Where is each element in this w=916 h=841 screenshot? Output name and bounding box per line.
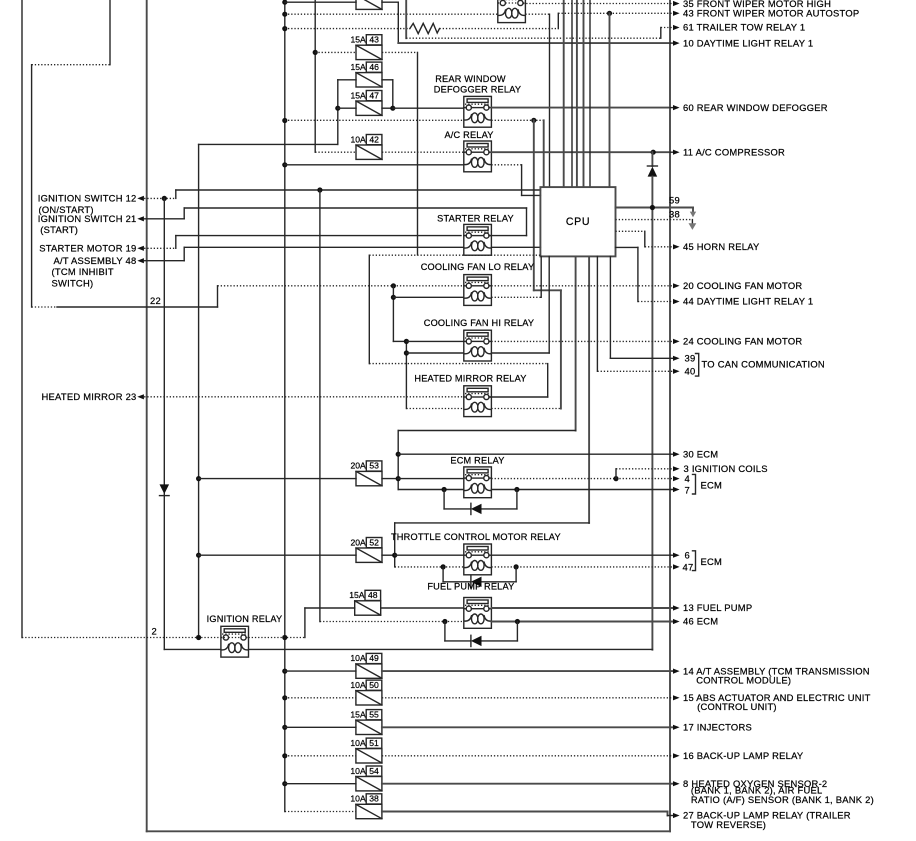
junction throttle diode right xyxy=(514,564,519,569)
wire CPU pin to ECM feed x=575.6 xyxy=(575,256,577,430)
svg-text:10A: 10A xyxy=(350,738,366,748)
svg-text:DEFOGGER RELAY: DEFOGGER RELAY xyxy=(434,85,521,95)
svg-text:REAR WINDOW: REAR WINDOW xyxy=(435,74,506,84)
wire fuse 54 input xyxy=(285,783,356,785)
wire diode branch vertical x=652.4 xyxy=(651,177,653,650)
wire battery feed A vertical x=22 xyxy=(21,0,23,638)
svg-text:20 COOLING FAN MOTOR: 20 COOLING FAN MOTOR xyxy=(683,280,802,291)
relay rear window defogger xyxy=(464,96,492,127)
fuse 10A 49 xyxy=(356,664,382,678)
wire riser x=398.3 for daytime relay feed xyxy=(397,2,399,43)
wire fuse 55 input xyxy=(285,726,356,728)
wire fuse 47 output y=108.2 xyxy=(382,107,393,109)
svg-text:COOLING FAN LO RELAY: COOLING FAN LO RELAY xyxy=(421,262,535,272)
junction fuses 46 47 common xyxy=(390,106,395,111)
wire riser x=558.3 resistor to autostop line xyxy=(557,13,559,28)
wire node 22 dashed distribution y=285.8 xyxy=(218,285,464,287)
wire 40 dashed y=371.3 xyxy=(597,370,673,372)
wire hi coil left y=353 xyxy=(406,352,463,354)
junction 11 line diode branch xyxy=(651,150,656,155)
junction fuse 52 node xyxy=(392,553,397,558)
diode D ECM relay xyxy=(444,508,471,510)
wire node 22 horizontal y=307 xyxy=(57,306,218,308)
wire 39 y=358.3 xyxy=(610,357,673,359)
junction bus285 on 2 line xyxy=(282,635,287,640)
wire throttle diode stub right xyxy=(515,567,517,582)
junction 59-ignition relay coil branch xyxy=(650,205,655,210)
wire defogger coil right dashed y=120.3 xyxy=(491,119,543,121)
wire fuse 46 input y=79.8 xyxy=(338,79,356,81)
fuse 10A 50 xyxy=(356,691,382,705)
wire bus285 corner to fuse 38 dashed y=811.5 xyxy=(285,811,356,813)
svg-text:54: 54 xyxy=(369,766,379,776)
ground symbol 38 xyxy=(689,223,697,230)
svg-text:3 IGNITION COILS: 3 IGNITION COILS xyxy=(684,463,768,474)
resistor R wiper autostop xyxy=(410,23,440,33)
wire heated mirror contact path vertical x=369.3 xyxy=(368,255,370,363)
svg-text:42: 42 xyxy=(369,134,379,144)
wire ign12 step riser x=175.8 xyxy=(175,190,177,198)
svg-text:44 DAYTIME LIGHT RELAY 1: 44 DAYTIME LIGHT RELAY 1 xyxy=(683,296,813,307)
wire ign21 to starter contact right y=235.6 xyxy=(490,235,527,237)
wire fuse 48 feed riser x=304.9 xyxy=(304,608,306,638)
svg-text:STARTER MOTOR 19: STARTER MOTOR 19 xyxy=(39,243,136,254)
junction autostop-CPU branch xyxy=(607,11,612,16)
wire defogger coil left dashed y=120.3 xyxy=(285,119,464,121)
arrow A/T ASSEMBLY 48 xyxy=(137,258,144,263)
wire ECM coil right 7 line y=489.5 xyxy=(491,489,673,491)
wire 38 ground drop x=692.4 xyxy=(691,220,693,224)
wire starter19 line y=236.2 wait use 235.6 xyxy=(176,235,461,237)
relay throttle control motor xyxy=(464,544,492,575)
wire heated mirror coil right dashed y=408.5 xyxy=(491,408,561,410)
wire fuse 54 output to arrow xyxy=(382,783,673,785)
wire 10 DAYTIME LIGHT RELAY 1 line y=43.1 xyxy=(398,42,670,44)
wire fuse 49 input xyxy=(285,670,356,672)
junction bus285 fuse 55 tap xyxy=(282,725,287,730)
relay cooling fan lo xyxy=(464,275,492,306)
svg-text:IGNITION SWITCH 21: IGNITION SWITCH 21 xyxy=(38,213,137,224)
wire cooling hi coil right y=353 xyxy=(491,352,549,354)
svg-text:17 INJECTORS: 17 INJECTORS xyxy=(683,722,752,733)
wire ign21 drop x=526.5 xyxy=(526,208,528,236)
junction ECM diode left xyxy=(442,487,447,492)
wire AC coil right dashed y=164.8 xyxy=(491,164,521,166)
wire fuse 48 input y=608 xyxy=(305,607,355,609)
svg-text:FUEL PUMP RELAY: FUEL PUMP RELAY xyxy=(427,581,514,591)
fuse 15A 55 xyxy=(356,720,382,734)
svg-text:20A: 20A xyxy=(351,461,367,471)
svg-text:15A: 15A xyxy=(349,590,365,600)
bus vertical x=285 xyxy=(284,0,286,812)
svg-text:60 REAR WINDOW DEFOGGER: 60 REAR WINDOW DEFOGGER xyxy=(683,102,828,113)
wire fuse 43 feed riser x=315.2 xyxy=(314,0,316,152)
wire lo coil left y=297.3 xyxy=(393,296,463,298)
wire fuse 53 input y=478.6 xyxy=(199,478,356,480)
wire fuse 43 input dashed y=52.4 xyxy=(315,51,356,53)
wire 4 ECM dashed y=478.6 xyxy=(491,478,673,480)
svg-text:TO CAN COMMUNICATION: TO CAN COMMUNICATION xyxy=(702,359,825,370)
junction node2-fuse52 tap xyxy=(196,553,201,558)
fuse 10A 38 xyxy=(356,804,382,818)
junction node2 tap on 2 line xyxy=(196,635,201,640)
diode D throttle relay xyxy=(443,581,471,583)
wire wiper coil riser x=549.5 to CPU xyxy=(549,14,551,187)
svg-text:11 A/C COMPRESSOR: 11 A/C COMPRESSOR xyxy=(683,146,785,157)
relay cooling fan hi xyxy=(464,330,492,361)
svg-text:47: 47 xyxy=(369,90,379,100)
wire fuse 46 output drop x=392.8 xyxy=(392,80,394,108)
wire heated mirror contact path dashed y=363.6 xyxy=(369,363,547,365)
wire ign12 branch vertical x=164.3 xyxy=(163,198,165,649)
wire fuse 50 output to arrow xyxy=(382,697,673,699)
wire ECM coil left y=489.5 xyxy=(398,489,464,491)
wire throttle diode stub left xyxy=(442,567,444,582)
svg-text:(TCM INHIBIT: (TCM INHIBIT xyxy=(52,266,114,277)
junction throttle diode left xyxy=(441,564,446,569)
svg-text:15A: 15A xyxy=(350,709,366,719)
wire 61 step up at x=660.8 xyxy=(660,28,662,39)
junction bus285 fuse 54 tap xyxy=(282,781,287,786)
junction 22 bus lo contact xyxy=(391,283,396,288)
svg-text:HEATED MIRROR 23: HEATED MIRROR 23 xyxy=(42,391,137,402)
wire heated mirror contact path vertical x=547.7 xyxy=(547,364,549,397)
wire 60 REAR WINDOW DEFOGGER y=107.6 xyxy=(491,107,670,109)
wire ignition coil left y=649.7 xyxy=(164,648,221,650)
outer enclosure border bottom edge xyxy=(147,830,670,832)
svg-text:10A: 10A xyxy=(350,680,366,690)
relay ECM xyxy=(464,467,492,498)
wire 45 drop x=644.8 xyxy=(644,231,646,247)
svg-text:22: 22 xyxy=(150,295,161,306)
wire autostop branch riser x=609.5 to CPU xyxy=(609,13,611,187)
wire ign21 line y=208 xyxy=(184,207,526,209)
svg-text:TOW REVERSE): TOW REVERSE) xyxy=(691,819,766,830)
wire lo coil right dashed y=297.3 xyxy=(491,296,541,298)
wire node 22 riser x=217.5 xyxy=(217,286,219,307)
wire ign12 line y=190 to CPU xyxy=(176,189,541,191)
fuse 20A 52 xyxy=(356,548,382,562)
junction bus-fuse40 feed xyxy=(282,0,287,5)
svg-text:COOLING FAN HI RELAY: COOLING FAN HI RELAY xyxy=(424,318,535,328)
wire fuse 40 feed y=2.2 xyxy=(285,1,356,3)
wire feed B vertical x=31.6 xyxy=(31,65,33,307)
wire 59 output y=207.5 xyxy=(616,207,694,209)
svg-text:SWITCH): SWITCH) xyxy=(52,277,94,288)
wire ignition coil right y=649.7 xyxy=(249,648,653,650)
svg-text:55: 55 xyxy=(369,709,379,719)
wire heated mirror contact right y=397 xyxy=(490,396,548,398)
wire fuse 49 output to arrow xyxy=(382,670,673,672)
wire 38 output dashed y=219.6 xyxy=(616,219,693,221)
junction defogger coil branch xyxy=(531,118,536,123)
wire CPU pin to throttle feed x=589.1 xyxy=(588,256,590,523)
wire 59 ground drop x=693 xyxy=(692,208,694,213)
junction bus285 fuse 51 tap xyxy=(282,753,287,758)
junction bus285 fuse 50 tap xyxy=(282,695,287,700)
bracket ECM 4-7 xyxy=(693,474,696,494)
junction fuel diode right xyxy=(515,619,520,624)
svg-text:15A: 15A xyxy=(351,90,367,100)
svg-text:15A: 15A xyxy=(351,35,367,45)
junction fuse 53 node xyxy=(396,476,401,481)
relay starter xyxy=(464,224,492,255)
svg-text:RATIO (A/F) SENSOR (BANK 1, BA: RATIO (A/F) SENSOR (BANK 1, BANK 2) xyxy=(691,794,874,805)
wire CPU top bus line x=563.7 xyxy=(563,0,565,187)
wire heated mirror 23 dashed y=396.8 xyxy=(144,396,464,398)
wire starter motor 19 dashed y=248.3 xyxy=(144,247,176,249)
svg-text:10A: 10A xyxy=(350,794,366,804)
svg-text:61 TRAILER TOW RELAY 1: 61 TRAILER TOW RELAY 1 xyxy=(683,22,805,33)
svg-text:THROTTLE CONTROL MOTOR RELAY: THROTTLE CONTROL MOTOR RELAY xyxy=(391,532,561,542)
svg-text:STARTER RELAY: STARTER RELAY xyxy=(437,214,514,224)
junction bus-resistor line xyxy=(282,26,287,31)
wire fuel diode stub left xyxy=(444,622,446,641)
wire fuse 38 output y=811.5 xyxy=(382,811,668,813)
wire fuse 52 output y=555.2 xyxy=(382,554,395,556)
wire 20 COOLING FAN MOTOR dashed y=285.8 xyxy=(491,285,673,287)
wire fuse 55 output to arrow xyxy=(382,726,673,728)
wire CPU top bus line x=583.5 xyxy=(583,0,585,187)
junction 22 bus lo coil xyxy=(391,295,396,300)
wire fuse 52 input y=555.2 xyxy=(199,554,356,556)
wire fuse 42 input dashed y=152 xyxy=(315,151,356,153)
svg-text:(START): (START) xyxy=(40,224,78,235)
wire ECM diode stub left xyxy=(443,490,445,509)
svg-text:50: 50 xyxy=(369,680,379,690)
wire fuse 53 output y=478.6 xyxy=(382,478,398,480)
fuse 40 (cropped at top) xyxy=(356,0,382,9)
svg-text:30 ECM: 30 ECM xyxy=(683,448,718,459)
svg-text:IGNITION RELAY: IGNITION RELAY xyxy=(207,614,283,624)
junction fuel diode left xyxy=(442,619,447,624)
wire defogger contact feed y=108.2 xyxy=(393,107,464,109)
junction 22 bus hi contact xyxy=(404,339,409,344)
wire trailer tow feed vertical x=406.2 xyxy=(405,0,407,38)
wire fuel coil left feed riser x=319.9 xyxy=(319,190,321,622)
wire node 2 riser x=198.6 xyxy=(198,144,200,637)
svg-text:39: 39 xyxy=(685,353,696,364)
svg-text:53: 53 xyxy=(369,461,379,471)
wire 22 bus vertical x=393.4 xyxy=(392,286,394,342)
wire defogger branch jog y=290.3 xyxy=(534,289,561,291)
wire fuse 51 input xyxy=(285,755,356,757)
wire throttle coil right 47 dashed y=566.9 xyxy=(491,566,673,568)
svg-text:49: 49 xyxy=(369,653,379,663)
junction bus-wiper coil xyxy=(282,12,287,17)
wire 44 output y=247.4 xyxy=(616,246,638,248)
junction 3 ignition coils branch xyxy=(613,476,618,481)
wire 24 COOLING FAN MOTOR dashed y=341.4 xyxy=(491,340,673,342)
svg-text:47: 47 xyxy=(683,561,694,572)
svg-text:13 FUEL PUMP: 13 FUEL PUMP xyxy=(683,602,752,613)
wire ignition switch 21 y=218.8 xyxy=(144,218,184,220)
svg-text:40: 40 xyxy=(685,366,696,377)
wire 61 arrow segment y=27.5 xyxy=(661,27,673,29)
wire fuse 40 output to corner xyxy=(382,1,398,3)
wire fuel coil right 46 y=622.5 xyxy=(491,621,673,623)
wire wiper coil left dashed y=14.2 xyxy=(285,13,498,15)
svg-text:20A: 20A xyxy=(351,537,367,547)
wire fuse 43 output dashed xyxy=(382,51,418,53)
relay ignition xyxy=(221,626,249,657)
wire AT48 line y=247.3 to starter coil xyxy=(184,246,464,248)
wire 3 IGNITION COILS dashed y=468.8 xyxy=(616,468,673,470)
svg-text:ECM: ECM xyxy=(701,556,723,567)
wire CPU top bus line x=572 xyxy=(571,0,573,187)
relay fuel pump xyxy=(464,598,492,629)
svg-text:38: 38 xyxy=(669,208,680,219)
fuse 10A 42 xyxy=(356,145,382,159)
wire ignition contact right dashed y=637.5 xyxy=(249,637,305,639)
svg-text:43: 43 xyxy=(369,35,379,45)
wire CPU pin 40 x=597.4 xyxy=(596,256,598,371)
wire 11 A/C COMPRESSOR y=152.7 xyxy=(491,151,670,153)
wire resistor feed dashed y=28.6 xyxy=(285,28,410,30)
svg-text:16 BACK-UP LAMP RELAY: 16 BACK-UP LAMP RELAY xyxy=(683,750,804,761)
wire throttle coil left dashed y=566.9 xyxy=(395,566,464,568)
svg-text:ECM RELAY: ECM RELAY xyxy=(450,456,504,466)
fuse 15A 46 xyxy=(356,73,382,87)
wire 30 ECM y=454.2 xyxy=(398,453,673,455)
wire AC coil riser x=521.6 xyxy=(521,165,523,196)
svg-text:51: 51 xyxy=(369,738,379,748)
wire 13 FUEL PUMP y=608 xyxy=(491,607,673,609)
junction ign12 fuel-pump branch xyxy=(317,187,322,192)
relay A/C xyxy=(464,141,492,172)
bracket TO CAN COMMUNICATION xyxy=(696,354,699,377)
wire 3 riser x=616 xyxy=(615,469,617,479)
wire fuse 43 output riser x=417.5 xyxy=(417,52,419,254)
wire heated mirror coil left dashed y=408.5 xyxy=(406,408,463,410)
fuse 10A 54 xyxy=(356,777,382,791)
wire 44 dashed y=301.5 xyxy=(638,301,673,303)
wire ECM feed y=430.5 xyxy=(398,430,575,432)
wire resistor output dashed y=28.6 xyxy=(440,28,559,30)
junction 30 ECM tap xyxy=(396,452,401,457)
wire defogger coil branch ext riser x=543.7 to CPU xyxy=(543,120,545,187)
wire defogger branch vertical x=560.9 xyxy=(560,290,562,408)
wire CPU pin 39 x=610.4 xyxy=(609,256,611,358)
wire node 22 dashed start xyxy=(32,306,57,308)
wire 45 dashed y=246.8 xyxy=(645,246,673,248)
arrow STARTER MOTOR 19 xyxy=(137,246,144,251)
junction bus-defogger coil xyxy=(282,118,287,123)
svg-text:10A: 10A xyxy=(350,653,366,663)
wire fuse 42 output dashed y=152 to AC relay contact xyxy=(382,151,464,153)
wire starter coil right to CPU y=247.3 xyxy=(491,246,540,248)
svg-text:59: 59 xyxy=(669,195,680,206)
fuse 15A 43 xyxy=(356,45,382,59)
wire 35 FRONT WIPER MOTOR HIGH dashed y=3.7 xyxy=(523,3,673,5)
wire fuse 50 input xyxy=(285,697,356,699)
wire ECM diode stub right xyxy=(516,490,518,509)
wire ignition switch 12 dashed y=198.4 xyxy=(144,197,176,199)
wire feed from node 2 riser y=144.4 xyxy=(199,143,338,145)
arrow IGNITION SWITCH 21 xyxy=(137,216,144,221)
CPU block U1 xyxy=(540,187,615,256)
wire hi contact left y=341.4 xyxy=(406,340,463,342)
outer enclosure border right edge xyxy=(669,0,671,831)
svg-text:4: 4 xyxy=(685,473,690,484)
junction 22 bus hi coil xyxy=(404,350,409,355)
svg-text:A/T ASSEMBLY 48: A/T ASSEMBLY 48 xyxy=(54,255,137,266)
fuse 15A 48 xyxy=(355,601,381,615)
wire CPU top bus line x=576.9 xyxy=(576,0,578,187)
wire AT48 step riser x=184.2 xyxy=(183,247,185,260)
svg-text:CONTROL MODULE): CONTROL MODULE) xyxy=(696,674,791,685)
junction fuse 43 feed xyxy=(313,50,318,55)
arrow HEATED MIRROR 23 xyxy=(137,394,144,399)
svg-text:15A: 15A xyxy=(351,62,367,72)
wire CPU pin to cooling hi coil x=549.2 xyxy=(548,256,550,353)
wire fuse 46 output y=79.8 xyxy=(382,79,393,81)
wire 61 TRAILER TOW RELAY 1 dashed y=38.2 xyxy=(406,37,661,39)
svg-text:10 DAYTIME LIGHT RELAY 1: 10 DAYTIME LIGHT RELAY 1 xyxy=(683,37,813,48)
wire AC coil left y=164.8 xyxy=(285,164,464,166)
wire throttle bus vertical x=394.7 xyxy=(394,523,396,567)
svg-text:24 COOLING FAN MOTOR: 24 COOLING FAN MOTOR xyxy=(683,336,802,347)
wire feed B vertical x=110 xyxy=(109,0,111,65)
wire 45 horn output dashed y=231.3 xyxy=(616,230,645,232)
wire ECM bus vertical x=398.2 xyxy=(397,431,399,490)
junction bus285 fuse 49 tap xyxy=(282,669,287,674)
arrow IGNITION SWITCH 12 xyxy=(137,196,144,201)
svg-text:48: 48 xyxy=(368,590,378,600)
wire fuse 47 input y=108.2 xyxy=(338,107,356,109)
fuse 10A 51 xyxy=(356,749,382,763)
wire 44 drop x=637.9 xyxy=(637,247,639,301)
wire riser x=337.8 feeding fuses 46 47 xyxy=(337,80,339,145)
wire fuse 51 output to arrow xyxy=(382,755,673,757)
wire AC coil to CPU y=195.4 xyxy=(522,194,541,196)
diode D2 on ignition coil feed xyxy=(160,484,170,494)
wire 27 arrow segment xyxy=(668,815,674,817)
wire ign21 step riser x=184.2 xyxy=(183,208,185,219)
outer enclosure border left edge xyxy=(146,0,148,831)
svg-text:ECM: ECM xyxy=(701,480,723,491)
svg-text:46: 46 xyxy=(369,62,379,72)
wire 22 bus jog y=341.4 xyxy=(393,340,406,342)
relay front wiper (cropped at top) xyxy=(498,0,526,23)
svg-text:7: 7 xyxy=(685,485,690,496)
fuse 20A 53 xyxy=(356,471,382,485)
wire throttle feed y=522.9 xyxy=(395,522,589,524)
wire defogger branch vertical x=533.8 xyxy=(533,120,535,290)
junction ECM diode right xyxy=(514,487,519,492)
wire throttle contact feed y=555.2 xyxy=(395,554,464,556)
wire CPU top bus line x=590 xyxy=(589,0,591,187)
svg-text:6: 6 xyxy=(685,549,690,560)
arrow 10 DAYTIME LIGHT RELAY 1 xyxy=(670,42,673,44)
svg-text:HEATED MIRROR RELAY: HEATED MIRROR RELAY xyxy=(414,374,526,384)
wire ECM contact feed y=478.6 xyxy=(398,478,464,480)
svg-text:38: 38 xyxy=(369,794,379,804)
wire fuel contact feed y=608 xyxy=(381,607,464,609)
svg-text:IGNITION SWITCH 12: IGNITION SWITCH 12 xyxy=(38,193,137,204)
bracket ECM 6-47 xyxy=(693,551,696,571)
wire fuel coil left dashed y=622.5 xyxy=(320,621,464,623)
junction node2-fuse53 tap xyxy=(196,476,201,481)
wire fuel diode stub right xyxy=(516,622,518,641)
svg-text:45 HORN RELAY: 45 HORN RELAY xyxy=(683,241,760,252)
wire heated mirror contact path dashed y=255.2 xyxy=(369,254,540,256)
diode D fuel pump relay xyxy=(445,640,471,642)
svg-text:43 FRONT WIPER MOTOR AUTOSTOP: 43 FRONT WIPER MOTOR AUTOSTOP xyxy=(683,8,859,19)
svg-text:10A: 10A xyxy=(350,766,366,776)
wire 43 FRONT WIPER MOTOR AUTOSTOP dashed y=13.3 xyxy=(558,12,673,14)
svg-text:52: 52 xyxy=(369,537,379,547)
